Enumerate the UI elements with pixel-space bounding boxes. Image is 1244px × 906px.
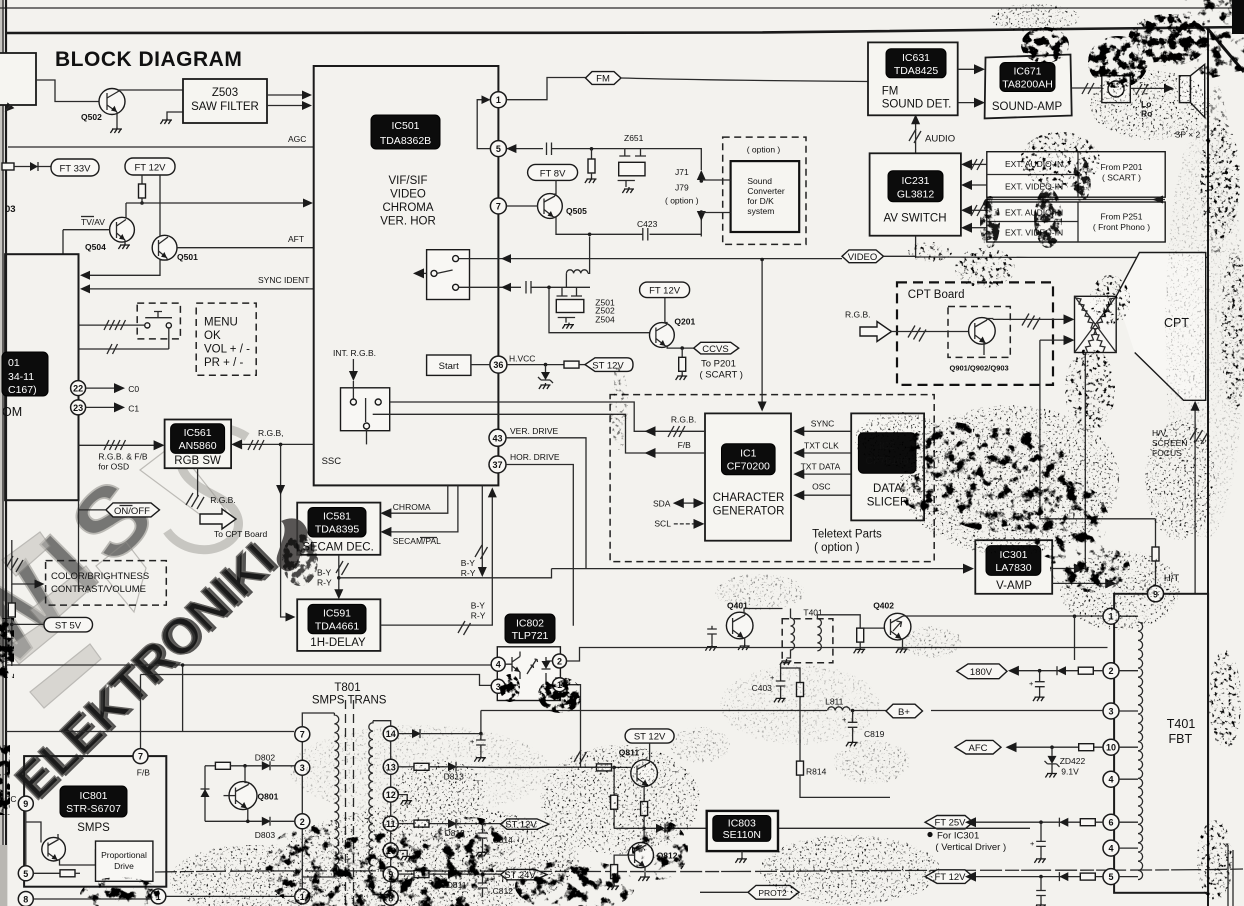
- Q801 emitter to D803 line: [246, 809, 249, 822]
- svg-text:VIDEO: VIDEO: [390, 189, 426, 201]
- diode on 180V line: [1057, 666, 1066, 675]
- svg-text:4: 4: [1108, 844, 1113, 854]
- wire Q504 base from micro: [63, 230, 110, 254]
- svg-text:IC803: IC803: [728, 818, 756, 830]
- deflection X: [1075, 296, 1117, 352]
- IC231 chip: [888, 171, 943, 202]
- svg-text:R.G.B.: R.G.B.: [671, 415, 697, 425]
- micro chip label: [2, 352, 48, 396]
- cap to gnd on pin14 node: [480, 734, 482, 740]
- svg-text:IC1: IC1: [740, 448, 757, 460]
- B+ flag: [886, 704, 923, 718]
- svg-text:AGC: AGC: [288, 134, 306, 144]
- wire IC561 bottom to CPT arrow: [197, 468, 199, 497]
- wire RGB from IC501 into IC561: [238, 443, 314, 445]
- svg-text:8: 8: [23, 895, 28, 905]
- svg-text:1: 1: [496, 95, 501, 105]
- svg-text:R-Y: R-Y: [471, 611, 486, 621]
- scan noise top right corner: [1207, 28, 1244, 72]
- wire video line right part: [884, 256, 1208, 257]
- wire Q201 emitter to CCVS: [666, 346, 694, 348]
- diode D at FT33V line: [14, 166, 51, 168]
- IC801 box: [24, 756, 166, 887]
- PROT2 flag: [748, 885, 799, 899]
- svg-text:IC671: IC671: [1013, 66, 1041, 78]
- ST 5V rounded: [44, 617, 93, 632]
- IC801 chip: [60, 786, 127, 817]
- cap to gnd FT25: [1040, 822, 1042, 841]
- feedback wire pin1-pin5: [477, 100, 490, 149]
- svg-text:To P201: To P201: [701, 359, 736, 370]
- svg-text:FT 25V: FT 25V: [935, 818, 967, 829]
- CHROMA wire: [389, 485, 448, 513]
- wire Q502 emitter to ground: [116, 112, 118, 127]
- cap to gnd at 180V: [1039, 671, 1041, 682]
- wire opto pin1 down to junction: [567, 685, 581, 756]
- svg-text:6: 6: [1108, 818, 1113, 828]
- wire micro bottom edge continues: [78, 500, 80, 592]
- data slicer chip: [858, 433, 916, 473]
- wire Q501 emitter down to sync line: [160, 258, 167, 275]
- emitter rail right with diode: [614, 827, 1030, 829]
- 180V flag: [957, 664, 1007, 679]
- FM SOUND DET box: [868, 42, 958, 115]
- wire ground to Z503: [167, 112, 183, 118]
- proportional drive box: [96, 841, 153, 881]
- wire Q901 emitter down: [984, 343, 986, 355]
- watermark S swirl: [167, 428, 247, 550]
- svg-text:Q402: Q402: [873, 601, 894, 611]
- svg-text:VER. HOR: VER. HOR: [380, 216, 436, 228]
- svg-text:B-Y: B-Y: [317, 568, 332, 578]
- teletext dashed box: [610, 395, 934, 562]
- AFC flag: [955, 740, 1001, 754]
- resistor on FT12 line: [1080, 873, 1095, 880]
- Sound Converter box: [731, 161, 800, 232]
- wire junction to Q801 collector: [245, 766, 249, 785]
- svg-text:9: 9: [23, 799, 28, 809]
- wire SYNC IDENT line: [88, 288, 313, 290]
- pin10 gnd stub: [398, 850, 407, 854]
- pin11 line ST12V: [398, 823, 414, 825]
- svg-text:Sound: Sound: [747, 176, 772, 186]
- ON/OFF hexagon: [106, 503, 160, 517]
- svg-text:SMPS TRANS: SMPS TRANS: [312, 694, 387, 706]
- wire jack to speaker w slashes: [1130, 87, 1165, 89]
- svg-text:PR + / -: PR + / -: [204, 357, 243, 369]
- pin 1: [490, 92, 506, 108]
- pin 2: [1103, 663, 1119, 679]
- wire 180V to pin2: [1016, 670, 1103, 672]
- svg-text:C1: C1: [128, 403, 139, 413]
- wire C423 to J corner down: [658, 216, 701, 236]
- wire Q502 collector to Z503: [119, 90, 183, 91]
- pin13 line resistor diode to Q811 base node: [398, 766, 414, 768]
- svg-text:CHROMA: CHROMA: [382, 202, 433, 214]
- IC631 chip: [886, 49, 946, 78]
- D803 line to pin2: [205, 820, 262, 822]
- svg-text:for OSD: for OSD: [98, 462, 129, 472]
- svg-text:D802: D802: [255, 753, 276, 763]
- wire IC501 BY down arrow: [481, 485, 483, 568]
- svg-text:TDA8425: TDA8425: [894, 65, 939, 77]
- wire arrow to Q901 base w slashes: [892, 331, 969, 333]
- CPT Board dashed box: [897, 282, 1053, 385]
- inner dashed box: [948, 307, 1010, 358]
- SECAM/PAL wire: [389, 485, 458, 532]
- svg-text:INT. R.G.B.: INT. R.G.B.: [333, 348, 376, 358]
- svg-text:Q801: Q801: [258, 792, 279, 802]
- V-AMP box: [975, 540, 1052, 594]
- wire FT12V to pin5: [973, 876, 1103, 878]
- svg-text:VER. DRIVE: VER. DRIVE: [510, 426, 559, 436]
- svg-text:AUDIO: AUDIO: [925, 134, 955, 145]
- wire Z503 out2: [267, 105, 303, 107]
- smps transistor: [42, 837, 66, 861]
- opto transistor: [505, 652, 520, 680]
- damper diode left: [204, 766, 206, 822]
- wire pin37 hor drive: [506, 465, 573, 626]
- pin12 gnd stub: [398, 795, 407, 799]
- wire left rail down to color box: [12, 540, 36, 584]
- svg-text:( Front Phono ): ( Front Phono ): [1093, 222, 1150, 232]
- svg-text:C167): C167): [8, 384, 37, 396]
- svg-text:43: 43: [492, 433, 502, 443]
- svg-text:D803: D803: [255, 830, 276, 840]
- svg-text:for D/K: for D/K: [747, 196, 774, 206]
- svg-text:TA8200AH: TA8200AH: [1002, 79, 1053, 91]
- open arrow into CPT board: [860, 322, 892, 342]
- svg-text:FT 8V: FT 8V: [540, 168, 566, 179]
- pin 36: [490, 356, 507, 373]
- svg-text:ZD422: ZD422: [1060, 756, 1086, 766]
- svg-text:system: system: [747, 206, 774, 216]
- ground: [110, 127, 122, 133]
- svg-text:4: 4: [496, 660, 501, 670]
- J71 arrow: [697, 170, 706, 180]
- coil above Z filters: [566, 270, 588, 274]
- svg-text:7: 7: [300, 730, 305, 740]
- svg-text:R.G.B. & F/B: R.G.B. & F/B: [98, 452, 147, 462]
- svg-text:HOR. DRIVE: HOR. DRIVE: [510, 452, 560, 462]
- watermark ELEKTRONIKI: [4, 531, 289, 812]
- svg-text:Proportional: Proportional: [101, 850, 147, 860]
- wire FT8V to Q505 collector: [555, 180, 556, 196]
- svg-text:+: +: [1030, 839, 1035, 848]
- core dashed lines: [346, 700, 354, 906]
- svg-text:3: 3: [496, 682, 501, 692]
- resistor on 180V line: [1078, 667, 1093, 674]
- scan noise EXT table streaks: [980, 158, 1091, 248]
- svg-text:Q501: Q501: [177, 252, 198, 262]
- wire Q402 emitter gnd: [902, 639, 903, 647]
- svg-text:J79: J79: [675, 183, 689, 193]
- CPT neck box: [1075, 296, 1117, 352]
- component stub at left edge: [2, 163, 14, 170]
- B+ line with coil: [481, 710, 827, 712]
- svg-text:SE110N: SE110N: [723, 829, 761, 841]
- svg-text:AN5860: AN5860: [179, 440, 217, 452]
- svg-text:2: 2: [557, 657, 562, 667]
- arrow out left of switch: [421, 272, 427, 274]
- svg-text:VOL + / -: VOL + / -: [204, 344, 250, 356]
- resistor on FT25 line: [1080, 819, 1095, 826]
- svg-text:T401: T401: [1167, 717, 1196, 731]
- wire micro to ON/OFF: [79, 509, 106, 511]
- resistor beside C403: [781, 668, 800, 683]
- svg-text:AV SWITCH: AV SWITCH: [883, 213, 946, 225]
- wire opto pin1 node to Q811 base line: [581, 756, 597, 768]
- svg-text:C0: C0: [128, 384, 139, 394]
- vert from pin1 line down: [1074, 616, 1076, 660]
- TXT CLK wire: [802, 452, 851, 454]
- cap to gnd FT12: [1040, 877, 1042, 891]
- wire pin1 to FM hexagon: [506, 78, 585, 100]
- RGB FB step wires from int switch: [390, 402, 705, 431]
- svg-text:Z651: Z651: [624, 133, 644, 143]
- pin 9 redraw: [1148, 586, 1164, 602]
- svg-text:From P201: From P201: [1100, 162, 1142, 172]
- Q402 transistor: [884, 613, 911, 640]
- svg-text:CF70200: CF70200: [727, 461, 770, 473]
- FT 12V (2nd): [640, 282, 690, 298]
- wire FT25V to pin6: [973, 821, 1103, 823]
- CCVS hexagon: [694, 342, 739, 354]
- svg-text:CPT Board: CPT Board: [908, 289, 965, 301]
- wire pin13 line to Q811 base: [614, 766, 631, 768]
- ST 12V rounded (Q811): [625, 729, 674, 743]
- Q801 collector line D802 to pin3: [205, 765, 215, 767]
- svg-text:C819: C819: [864, 729, 885, 739]
- svg-text:RGB SW: RGB SW: [174, 455, 221, 467]
- divider arrow line: [987, 199, 1165, 201]
- key switch dashed box: [137, 303, 180, 339]
- pin 4b: [1103, 840, 1119, 856]
- scattered small specks field: [670, 574, 962, 784]
- svg-text:Z503: Z503: [212, 87, 238, 99]
- wire ST12V to Q811 collector: [649, 743, 651, 759]
- svg-text:F/B: F/B: [137, 768, 151, 778]
- ground at Z503: [160, 118, 172, 124]
- wire tuner to Q502 base: [36, 80, 100, 102]
- wire soundamp to phone jack w slashes: [1072, 87, 1102, 89]
- pin 23: [71, 400, 86, 415]
- svg-text:22: 22: [73, 384, 83, 394]
- rail2 to opto pin3: [141, 675, 492, 686]
- svg-text:OK: OK: [204, 330, 221, 342]
- wire pin36 to ST12V: [507, 364, 564, 366]
- scan noise SECAM watermark chunk: [277, 518, 308, 571]
- svg-text:TXT DATA: TXT DATA: [801, 462, 841, 472]
- smps internal wires: [26, 811, 96, 866]
- svg-text:B+: B+: [898, 707, 910, 718]
- arrows FM det to sound amp: [958, 68, 976, 70]
- svg-text:R-Y: R-Y: [461, 568, 476, 578]
- FT 33V: [51, 159, 99, 176]
- svg-text:TDA4661: TDA4661: [315, 621, 360, 633]
- B+ line into pin 3: [853, 710, 1103, 712]
- svg-text:Drive: Drive: [114, 861, 134, 871]
- svg-text:1H-DELAY: 1H-DELAY: [310, 637, 366, 649]
- transistor Q505: [538, 194, 563, 219]
- V-AMP out arrows: [1052, 568, 1075, 570]
- svg-text:2: 2: [300, 817, 305, 827]
- scan noise bottom center mega: [80, 817, 688, 906]
- svg-text:MENU: MENU: [204, 317, 238, 329]
- Z503 SAW FILTER: [183, 79, 267, 123]
- SSC drop wire: [279, 443, 283, 447]
- svg-text:IC501: IC501: [391, 120, 419, 132]
- C819: [852, 711, 854, 723]
- wire CPT bottom up arrow (H/V): [1194, 409, 1196, 594]
- Q811 emitter chain down: [644, 786, 648, 802]
- wire int switch to RGB line down: [366, 429, 368, 444]
- svg-text:37: 37: [492, 460, 502, 470]
- wire AFT line: [177, 247, 313, 249]
- vert chain down to R814: [799, 697, 801, 762]
- pin 6: [1103, 814, 1119, 830]
- wire VAMP up to CPT arrow2: [1040, 340, 1156, 519]
- svg-text:IC581: IC581: [323, 511, 351, 523]
- arrow into tuner bottom from left border: [2, 102, 15, 115]
- line to T801 pin7: [6, 731, 294, 733]
- svg-text:R.G.B.: R.G.B.: [210, 495, 236, 505]
- svg-text:7: 7: [138, 752, 143, 762]
- IC501 chip label: [371, 115, 440, 149]
- svg-text:CONTRAST/VOLUME: CONTRAST/VOLUME: [51, 584, 146, 595]
- frame top main border: [6, 27, 1244, 33]
- IC581 chip: [308, 508, 366, 538]
- ZD422 zener: [1051, 747, 1053, 756]
- svg-text:( option ): ( option ): [747, 145, 781, 155]
- svg-text:3: 3: [1108, 707, 1113, 717]
- base stub: [224, 795, 236, 797]
- bottom pin1 circle and line: [151, 889, 166, 904]
- zener to ground at HVCC: [545, 365, 547, 372]
- arrow down to int switch: [352, 359, 354, 372]
- wire pin5 line to J71 corner: [641, 149, 702, 170]
- wire switch upper to video line: [459, 258, 842, 260]
- OSC wire: [802, 494, 851, 496]
- pin 43: [489, 429, 506, 446]
- svg-text:TLP721: TLP721: [512, 630, 549, 642]
- secondary pins column: [390, 726, 392, 898]
- svg-text:2: 2: [1108, 666, 1113, 676]
- svg-text:Converter: Converter: [747, 186, 784, 196]
- svg-text:SOUND-AMP: SOUND-AMP: [992, 101, 1063, 113]
- frame right inner partial: [1228, 845, 1233, 906]
- svg-text:TDA8362B: TDA8362B: [380, 135, 431, 147]
- opto pins: [491, 657, 505, 671]
- svg-text:SDA: SDA: [653, 499, 671, 509]
- svg-text:To CPT Board: To CPT Board: [214, 529, 268, 539]
- SOUND-AMP box (skewed): [985, 55, 1072, 119]
- svg-text:R-Y: R-Y: [317, 578, 332, 588]
- svg-text:C423: C423: [637, 219, 658, 229]
- FT 8V: [528, 164, 578, 180]
- svg-text:For IC301: For IC301: [937, 830, 979, 841]
- svg-text:SYNC: SYNC: [811, 419, 835, 429]
- svg-text:FT 33V: FT 33V: [60, 164, 92, 175]
- svg-text:23: 23: [73, 403, 83, 413]
- vert rail1 to T801 line: [182, 665, 184, 732]
- frame left border: [5, 0, 7, 906]
- wire opto pin2 up to rail: [567, 648, 1108, 662]
- COLOR/BRIGHTNESS dashed box: [46, 561, 167, 606]
- svg-text:180V: 180V: [970, 667, 993, 678]
- int rgb switch box: [341, 388, 390, 431]
- svg-text:Start: Start: [439, 361, 459, 372]
- IC671 chip: [1000, 63, 1055, 92]
- svg-text:5: 5: [1108, 872, 1113, 882]
- svg-text:9.1V: 9.1V: [1061, 767, 1079, 777]
- TXT DATA wire: [802, 473, 851, 475]
- wire IC581 down to IC591: [338, 555, 340, 592]
- C814: [482, 824, 484, 833]
- transistor Q201: [650, 323, 675, 348]
- svg-text:FBT: FBT: [1169, 732, 1193, 746]
- svg-text:Teletext Parts: Teletext Parts: [812, 529, 882, 541]
- IC803 ground: [741, 851, 743, 857]
- resistor to gnd at Q201: [681, 348, 683, 357]
- resistor on AFC line: [1079, 744, 1094, 751]
- svg-text:TDA8395: TDA8395: [315, 524, 360, 536]
- wire FT12V to Q201 collector: [665, 298, 667, 325]
- Q812: [628, 843, 653, 868]
- Q812 base resistor: [614, 855, 635, 865]
- wire IC591 out right up to IC501: [380, 494, 492, 625]
- svg-text:SYNC IDENT: SYNC IDENT: [258, 275, 309, 285]
- svg-text:Q502: Q502: [81, 112, 102, 122]
- DATA SLICER box: [851, 413, 924, 520]
- svg-text:5: 5: [23, 869, 28, 879]
- Z501 stack terminals: [557, 287, 583, 296]
- svg-text:Q201: Q201: [674, 317, 695, 327]
- pin 10: [1103, 739, 1119, 755]
- svg-text:FT 12V: FT 12V: [649, 286, 681, 297]
- resistor: [564, 361, 579, 368]
- frame right border: [1207, 30, 1209, 906]
- key symbol: [145, 317, 172, 319]
- svg-text:VIF/SIF: VIF/SIF: [389, 175, 428, 187]
- phone jack: [1102, 76, 1131, 103]
- svg-text:R.G.B.: R.G.B.: [845, 310, 871, 320]
- svg-text:36: 36: [493, 360, 503, 370]
- svg-text:LA7830: LA7830: [995, 562, 1031, 574]
- svg-text:F/B: F/B: [678, 440, 692, 450]
- IC501 block: [314, 66, 499, 485]
- FM hexagon: [586, 72, 622, 85]
- wire BY junction right and up-jog to VAMP line: [339, 569, 552, 578]
- wire FT12V right leg down to Q501 collector: [159, 175, 161, 236]
- svg-text:01: 01: [8, 357, 20, 369]
- svg-text:03: 03: [5, 204, 16, 215]
- svg-text:34-11: 34-11: [8, 371, 34, 383]
- junction + resistor to gnd: [590, 147, 594, 151]
- svg-text:IC801: IC801: [79, 790, 107, 802]
- wire AGC line: [8, 146, 313, 148]
- svg-text:J71: J71: [675, 167, 689, 177]
- svg-text:B-Y: B-Y: [471, 601, 486, 611]
- svg-text:Q504: Q504: [85, 242, 106, 252]
- svg-text:OM: OM: [2, 405, 22, 419]
- For IC301 note: [927, 832, 932, 837]
- svg-text:+: +: [1029, 679, 1034, 688]
- ST 12V flag: [585, 358, 633, 372]
- scan noise big center-right explosion: [900, 422, 1130, 592]
- pin 3: [1103, 703, 1119, 719]
- wire pin7 to Q505 base: [506, 205, 538, 207]
